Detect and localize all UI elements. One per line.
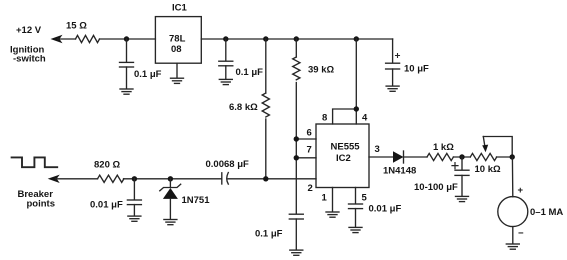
wire bbox=[404, 156, 428, 158]
ground bbox=[128, 216, 141, 221]
resistor 15 ohm bbox=[66, 21, 100, 43]
svg-text:39 kΩ: 39 kΩ bbox=[308, 65, 334, 76]
node junction C5 bbox=[132, 176, 137, 181]
svg-text:3: 3 bbox=[375, 144, 380, 155]
svg-text:0.1 μF: 0.1 μF bbox=[134, 69, 162, 80]
svg-text:0.01 μF: 0.01 μF bbox=[90, 200, 123, 211]
capacitor 0.1 uF (timing) bbox=[255, 214, 303, 250]
svg-text:78L: 78L bbox=[169, 34, 186, 45]
resistor 6.8 kohm bbox=[229, 39, 269, 179]
node +12V ignition switch (labels and arrow) bbox=[10, 25, 76, 65]
wire bbox=[58, 38, 76, 40]
wire bbox=[453, 156, 470, 158]
diode D2 zener 1N751 bbox=[160, 179, 210, 219]
svg-text:points: points bbox=[27, 199, 56, 210]
node junction pot/meter bbox=[510, 154, 515, 159]
resistor 39 kohm bbox=[293, 39, 335, 214]
node junction pin6 bbox=[294, 136, 299, 141]
capacitor 0.0068 uF (coupling) bbox=[206, 159, 317, 184]
capacitor 10 uF bbox=[386, 39, 429, 86]
ground bbox=[386, 86, 399, 91]
node junction pin4 bbox=[354, 106, 359, 111]
svg-text:1 kΩ: 1 kΩ bbox=[433, 142, 454, 153]
ground bbox=[506, 244, 519, 249]
svg-text:1: 1 bbox=[322, 193, 328, 204]
svg-text:+12 V: +12 V bbox=[16, 25, 42, 36]
capacitor C2 0.1 uF (output bypass) bbox=[219, 39, 263, 79]
capacitor 0.01 uF on pin 5 bbox=[349, 188, 402, 228]
svg-text:0.1 μF: 0.1 μF bbox=[255, 229, 283, 240]
capacitor 0.01 uF (breaker filter) bbox=[90, 179, 141, 216]
ground bbox=[219, 79, 232, 84]
ground bbox=[290, 250, 303, 255]
diode D1 1N4148 bbox=[383, 151, 416, 177]
meter M1 0-1 MA bbox=[498, 185, 564, 239]
svg-text:IC2: IC2 bbox=[336, 153, 351, 164]
svg-text:6: 6 bbox=[307, 128, 312, 139]
wire arrow to breaker points bbox=[48, 175, 98, 183]
svg-text:1N4148: 1N4148 bbox=[383, 166, 416, 177]
svg-text:+: + bbox=[518, 185, 524, 196]
svg-text:-switch: -switch bbox=[13, 54, 46, 65]
wire to meter bbox=[511, 157, 513, 197]
svg-text:6.8 kΩ: 6.8 kΩ bbox=[229, 102, 258, 113]
op-amp U1 regulator IC1 78L08 bbox=[155, 3, 201, 64]
wire pin 7 bbox=[296, 157, 316, 159]
wire pin8-pin4 strap bbox=[333, 39, 357, 124]
svg-text:7: 7 bbox=[307, 144, 312, 155]
wire trigger line bbox=[124, 178, 222, 180]
svg-text:15 Ω: 15 Ω bbox=[66, 21, 87, 32]
ground bbox=[164, 220, 177, 225]
svg-text:8: 8 bbox=[322, 113, 327, 124]
wire pin 3 output bbox=[369, 156, 393, 158]
wire to IC1 input bbox=[100, 38, 156, 40]
node junction at C6 bbox=[459, 154, 464, 159]
svg-text:08: 08 bbox=[171, 44, 182, 55]
resistor 820 ohm bbox=[94, 160, 124, 183]
node breaker points input (waveform symbol) bbox=[12, 157, 58, 167]
ground bbox=[456, 196, 469, 201]
node junction D2 bbox=[168, 176, 173, 181]
svg-text:10 kΩ: 10 kΩ bbox=[475, 164, 501, 175]
wire pin 1 to ground bbox=[326, 188, 339, 218]
svg-text:2: 2 bbox=[308, 183, 313, 194]
svg-text:0.01 μF: 0.01 μF bbox=[369, 204, 402, 215]
node junction pin4/8 feed bbox=[354, 36, 359, 41]
svg-text:1N751: 1N751 bbox=[182, 195, 211, 206]
svg-text:0.0068 μF: 0.0068 μF bbox=[206, 159, 250, 170]
op-amp U2 timer NE555 IC2 bbox=[316, 124, 369, 188]
node Breaker points label bbox=[18, 189, 56, 210]
node junction C2 bbox=[223, 36, 228, 41]
svg-text:10 μF: 10 μF bbox=[404, 64, 429, 75]
wire pin 6 bbox=[296, 138, 316, 140]
svg-text:0.1 μF: 0.1 μF bbox=[236, 67, 264, 78]
node junction trigger bbox=[263, 176, 268, 181]
wire +8V rail bbox=[201, 38, 392, 40]
node junction at C1 bbox=[124, 36, 129, 41]
node junction pin7 bbox=[294, 155, 299, 160]
svg-text:820 Ω: 820 Ω bbox=[94, 160, 120, 171]
svg-text:0–1 MA: 0–1 MA bbox=[530, 207, 563, 218]
ground bbox=[349, 227, 362, 232]
capacitor 10-100 uF (polarized) bbox=[414, 157, 469, 196]
node junction R2 bbox=[263, 36, 268, 41]
resistor 1 kohm bbox=[427, 142, 454, 161]
svg-text:5: 5 bbox=[362, 193, 368, 204]
svg-text:10-100 μF: 10-100 μF bbox=[414, 182, 458, 193]
svg-text:NE555: NE555 bbox=[331, 142, 361, 153]
wire meter to ground bbox=[512, 227, 514, 244]
ground under IC1 bbox=[171, 63, 184, 83]
svg-text:4: 4 bbox=[362, 113, 368, 124]
node junction R3 bbox=[294, 36, 299, 41]
ground bbox=[120, 89, 133, 94]
potentiometer 10 kohm bbox=[470, 137, 512, 176]
svg-text:IC1: IC1 bbox=[172, 3, 188, 14]
capacitor C1 0.1 uF (input bypass) bbox=[120, 39, 162, 89]
svg-text:−: − bbox=[518, 228, 524, 239]
